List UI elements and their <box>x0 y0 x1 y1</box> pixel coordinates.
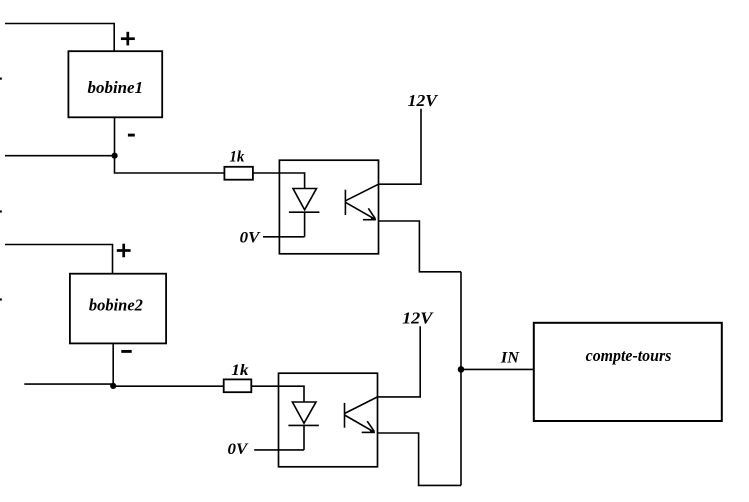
wire: Q1 emitter to bus <box>379 221 462 272</box>
svg-text:compte-tours: compte-tours <box>586 346 672 365</box>
node: bobine1 junction dot <box>112 153 118 159</box>
phototransistor Q1 (U1) <box>345 184 378 220</box>
optocoupler U1 box <box>279 160 378 254</box>
edge tick 3 (cropped label, left edge) <box>0 298 2 300</box>
svg-text:IN: IN <box>500 349 521 366</box>
wire: left input to bobine2 junction <box>24 383 113 385</box>
phototransistor Q2 (U2) <box>345 397 378 433</box>
+ label (bobine2) <box>117 244 131 258</box>
wire: junction to resistor R2 <box>113 385 224 387</box>
svg-text:bobine2: bobine2 <box>89 296 143 315</box>
wire: bus vertical to bottom <box>460 272 462 486</box>
resistor R2 <box>224 379 252 392</box>
wire: R2 to LED D2 anode <box>251 386 304 402</box>
optocoupler U2 box <box>279 373 378 467</box>
wire: 0V to D1 cathode <box>263 236 305 238</box>
+ label (bobine1) <box>121 32 135 46</box>
wire: Q2 collector to 12V rail <box>378 326 421 397</box>
svg-text:0V: 0V <box>228 441 249 458</box>
wire: R1 to LED D1 anode <box>253 173 305 189</box>
resistor R1 <box>224 167 253 180</box>
wire: bobine2 minus to junction <box>112 343 114 386</box>
wire: 0V to D2 cathode <box>254 449 304 451</box>
wire: bobine2 plus input from left edge <box>5 245 113 274</box>
wire: left input to junction node <box>5 155 115 157</box>
edge tick 1 (cropped label, left edge) <box>0 77 2 79</box>
LED D2 (U2) <box>288 402 319 450</box>
bobine2 box <box>70 274 166 344</box>
svg-text:12V: 12V <box>408 91 439 110</box>
- label (bobine2) <box>121 350 131 353</box>
svg-text:bobine1: bobine1 <box>88 78 144 97</box>
bobine1 box <box>68 51 162 117</box>
wire: Q1 collector to 12V rail <box>379 109 422 184</box>
compte-tours box <box>534 323 722 421</box>
svg-text:0V: 0V <box>240 229 261 246</box>
svg-text:1k: 1k <box>231 362 248 379</box>
node: IN junction dot <box>458 366 465 373</box>
node: bobine2 junction dot <box>110 383 116 389</box>
svg-text:12V: 12V <box>402 308 434 327</box>
LED D1 (U1) <box>289 189 320 237</box>
wire: bobine1 plus input from left edge <box>5 24 114 52</box>
wire: junction down and right to resistor R1 <box>115 156 225 173</box>
svg-text:1k: 1k <box>229 149 244 166</box>
wire: Q2 emitter to bus <box>378 433 462 485</box>
edge tick 2 (cropped label, left edge) <box>0 210 2 212</box>
- label (bobine1) <box>128 134 135 137</box>
wire: node to compte-tours IN <box>461 368 534 370</box>
wire: bobine1 minus to junction <box>114 117 116 155</box>
